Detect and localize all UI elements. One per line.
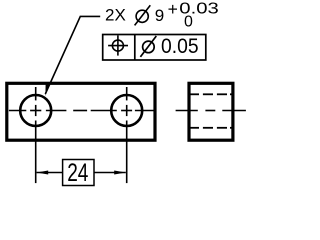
vertical centerline hole 2 + extension line	[126, 87, 128, 183]
dimension line right segment	[94, 172, 126, 174]
svg-text:2X: 2X	[105, 7, 126, 25]
front view outline	[7, 83, 155, 140]
position symbol	[108, 35, 128, 55]
vertical centerline hole 1 + extension line	[35, 87, 37, 183]
hole 2 (right)	[111, 95, 142, 126]
horizontal centerline (front view)	[9, 110, 155, 112]
diameter symbol (FCF)	[140, 36, 156, 57]
svg-text:9: 9	[155, 6, 164, 25]
hidden line upper (hole)	[190, 93, 231, 95]
diameter symbol (note)	[135, 5, 151, 25]
svg-text:0.05: 0.05	[161, 33, 199, 58]
dimension arrowhead right	[114, 171, 126, 175]
dimension arrowhead left	[37, 171, 49, 175]
dimension line left segment	[37, 172, 63, 174]
leader line to left hole	[45, 16, 100, 94]
side view outline	[189, 83, 233, 140]
svg-text:24: 24	[67, 160, 88, 187]
svg-text:0: 0	[184, 13, 193, 30]
leader arrowhead	[45, 84, 49, 96]
basic dimension box	[63, 160, 94, 186]
svg-text:+: +	[168, 0, 178, 19]
hidden line lower (hole)	[190, 127, 231, 129]
side view centerline	[176, 110, 246, 112]
feature control frame box	[103, 35, 206, 61]
hole 1 (left)	[20, 95, 51, 126]
